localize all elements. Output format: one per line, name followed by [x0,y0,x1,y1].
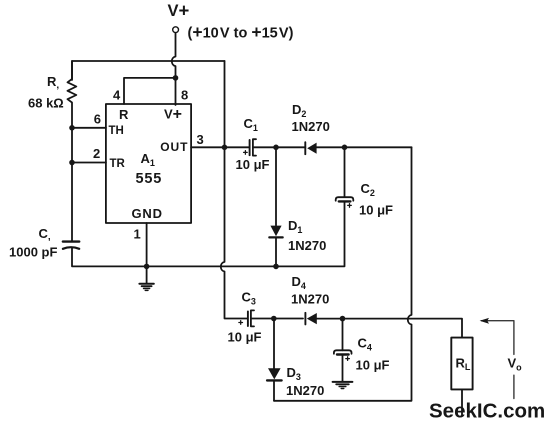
svg-text:C1: C1 [244,116,258,133]
svg-text:10 μF: 10 μF [356,358,390,373]
svg-text:D2: D2 [292,102,306,119]
svg-text:1N270: 1N270 [286,383,324,398]
svg-text:3: 3 [197,132,204,147]
svg-text:6: 6 [94,112,101,127]
svg-text:SeekIC.com: SeekIC.com [429,400,545,423]
svg-text:1N270: 1N270 [291,292,329,307]
svg-text:C2: C2 [361,181,375,198]
svg-text:D1: D1 [288,218,302,235]
svg-text:R,: R, [47,74,59,91]
svg-text:2: 2 [93,146,100,161]
svg-text:RL: RL [456,356,471,373]
svg-text:1N270: 1N270 [288,238,326,253]
svg-text:D4: D4 [292,274,306,291]
svg-text:10 μF: 10 μF [236,157,270,172]
svg-text:(+10 V to +15 V): (+10 V to +15 V) [188,22,294,42]
svg-text:68 kΩ: 68 kΩ [28,96,64,111]
svg-text:8: 8 [181,88,188,103]
svg-text:1000 pF: 1000 pF [9,245,57,260]
svg-text:C4: C4 [358,336,372,353]
svg-text:V+: V+ [164,106,182,123]
svg-text:A1: A1 [141,151,155,168]
svg-text:OUT: OUT [160,140,188,154]
svg-text:GND: GND [132,206,163,221]
svg-text:C3: C3 [242,290,256,307]
svg-text:R: R [119,107,129,122]
svg-text:TR: TR [110,158,126,170]
svg-text:4: 4 [113,88,121,103]
svg-text:10 μF: 10 μF [228,330,262,345]
svg-text:1: 1 [134,227,141,242]
svg-text:V+: V+ [168,0,190,21]
svg-text:D3: D3 [287,365,301,382]
svg-text:10 μF: 10 μF [359,203,393,218]
svg-text:Vo: Vo [508,356,523,373]
svg-text:555: 555 [136,171,163,187]
svg-text:1N270: 1N270 [292,119,330,134]
svg-text:TH: TH [109,125,124,137]
svg-text:C,: C, [39,226,51,243]
